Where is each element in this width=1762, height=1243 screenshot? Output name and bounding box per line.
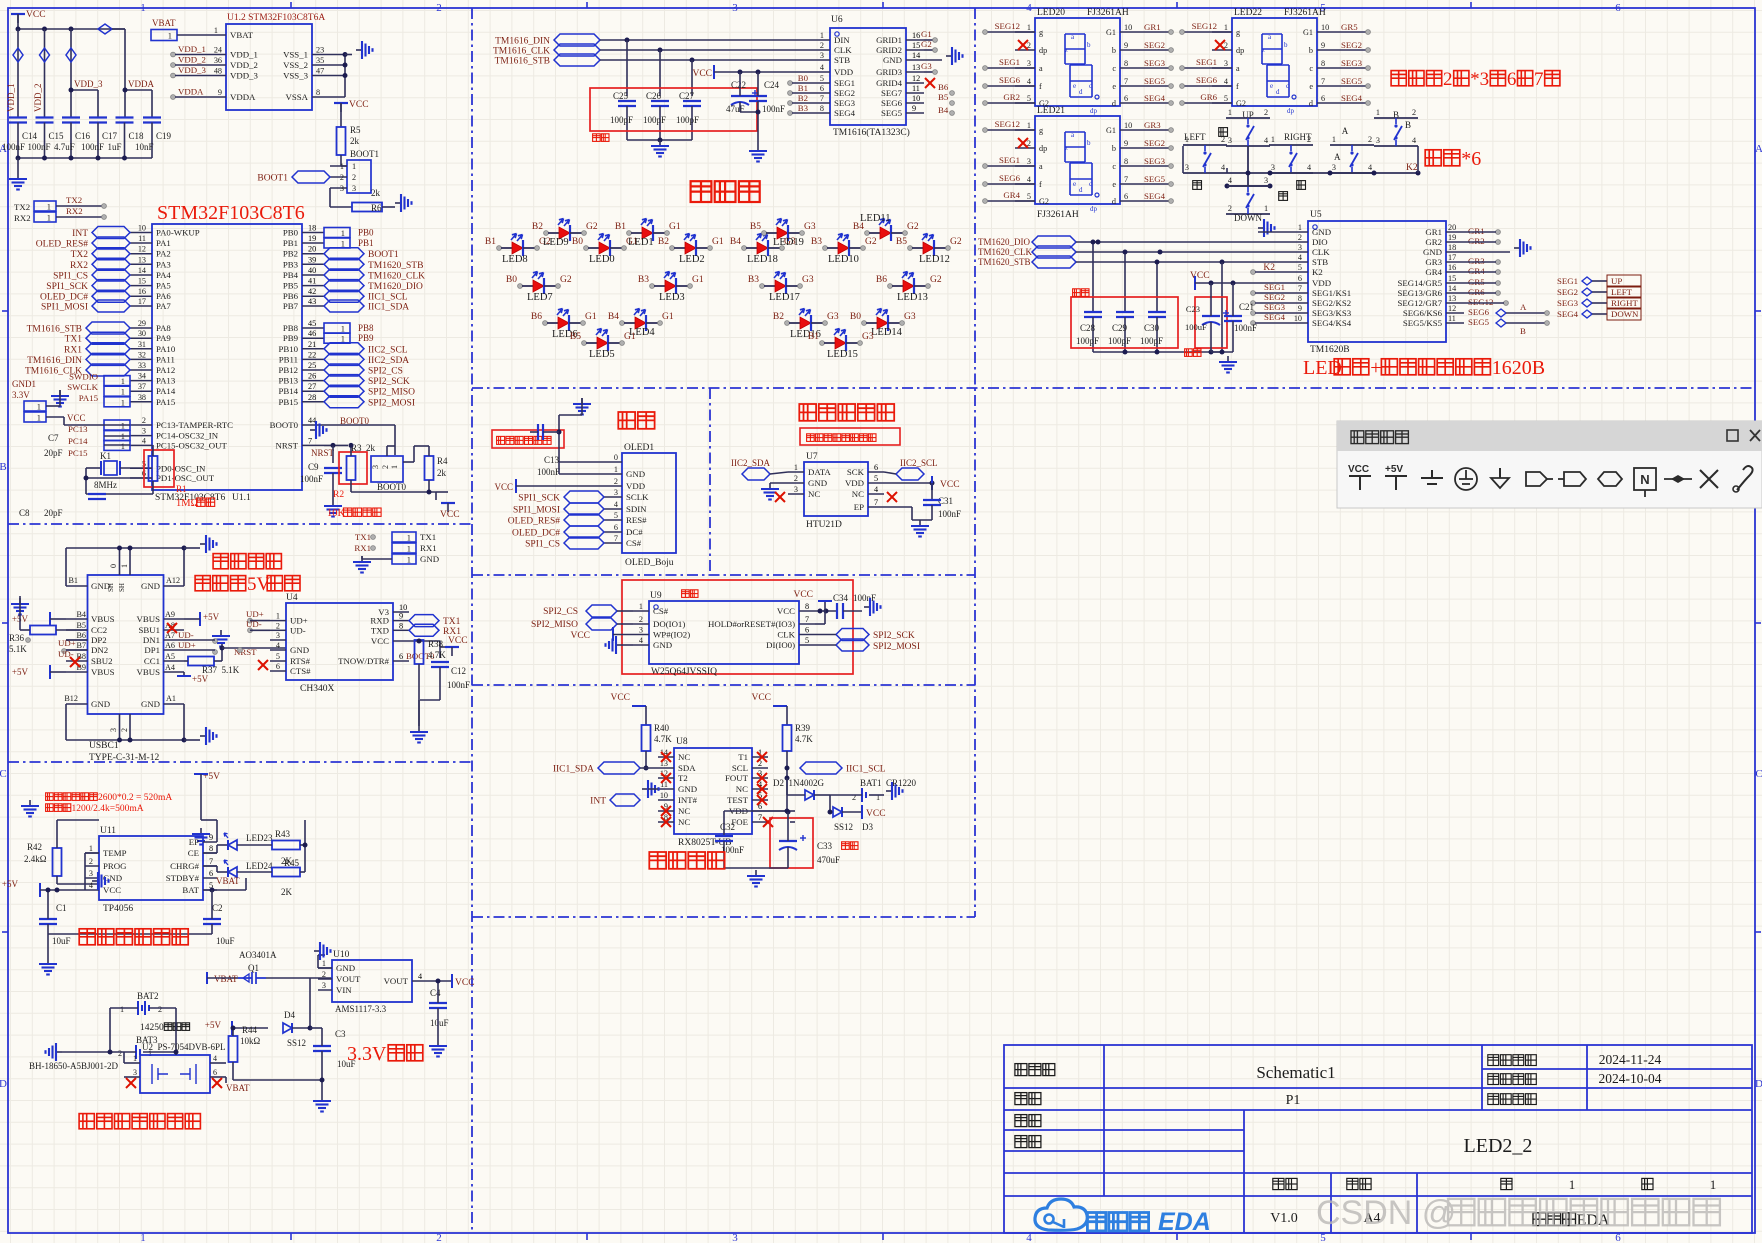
svg-text:LED23: LED23 — [246, 833, 273, 843]
no-connect X — [212, 1078, 222, 1088]
LED LED10 — [823, 246, 828, 251]
svg-text:VDD: VDD — [626, 481, 645, 491]
annotation battery charge title — [79, 929, 95, 945]
LED LED5 — [582, 341, 587, 346]
LED LED12 — [908, 246, 913, 251]
svg-text:SEG2: SEG2 — [1341, 40, 1362, 50]
capacitor C33 470uF — [779, 840, 797, 842]
svg-text:BOOT0: BOOT0 — [377, 482, 406, 492]
svg-text:VDDA: VDDA — [128, 79, 154, 89]
tool icon netlabel N — [1634, 468, 1656, 490]
svg-text:SCK: SCK — [847, 467, 865, 477]
pin 17 PA7 — [130, 305, 152, 307]
svg-text:PA9: PA9 — [156, 333, 171, 343]
svg-text:SS12: SS12 — [287, 1038, 306, 1048]
pin 5 K2 — [1290, 271, 1308, 273]
svg-text:c: c — [1309, 64, 1313, 73]
pin 2 VDD — [604, 485, 622, 487]
label shang — [1219, 128, 1228, 137]
wire — [184, 639, 215, 641]
pin 18 GND — [1446, 251, 1464, 253]
ground — [51, 390, 69, 407]
svg-text:VDD_2: VDD_2 — [178, 55, 206, 65]
svg-text:7: 7 — [1124, 175, 1128, 184]
svg-text:9: 9 — [1124, 41, 1128, 50]
svg-text:R2: R2 — [333, 490, 344, 500]
svg-text:IIC2_SCL: IIC2_SCL — [900, 458, 938, 468]
pin 27 PB14 — [302, 390, 324, 392]
svg-text:4: 4 — [1264, 136, 1268, 145]
svg-text:SEG3: SEG3 — [834, 98, 856, 108]
svg-text:LED3: LED3 — [659, 292, 685, 303]
svg-text:10uF: 10uF — [216, 936, 235, 946]
svg-text:8: 8 — [209, 844, 213, 853]
svg-text:3: 3 — [1271, 163, 1275, 172]
svg-text:c: c — [1112, 64, 1116, 73]
svg-text:U1.2 STM32F103C8T6A: U1.2 STM32F103C8T6A — [227, 13, 325, 23]
svg-text:8: 8 — [805, 602, 809, 611]
svg-text:1: 1 — [1185, 135, 1189, 144]
svg-text:GR6: GR6 — [1468, 287, 1485, 297]
svg-text:FJ3261AH: FJ3261AH — [1087, 8, 1129, 18]
svg-text:SEG6: SEG6 — [881, 98, 903, 108]
svg-text:5: 5 — [1298, 263, 1302, 272]
pin 3 GND — [85, 877, 99, 879]
pin 3 a — [1015, 165, 1035, 167]
svg-text:28: 28 — [308, 393, 316, 402]
svg-text:PA0-WKUP: PA0-WKUP — [156, 228, 200, 238]
pin 29 PA8 — [130, 327, 152, 329]
pin A4 VBUS — [164, 671, 185, 673]
svg-text:PB0: PB0 — [358, 228, 374, 238]
svg-text:26: 26 — [308, 372, 316, 381]
svg-text:GRID2: GRID2 — [876, 45, 902, 55]
net flag IIC1_SCL — [324, 290, 364, 302]
svg-text:NC: NC — [808, 489, 820, 499]
svg-text:9: 9 — [1298, 304, 1302, 313]
svg-text:1: 1 — [390, 465, 399, 469]
svg-text:d: d — [1079, 186, 1083, 194]
svg-text:LED5: LED5 — [589, 349, 615, 360]
net flag SPI1_CS — [564, 537, 604, 549]
pin A8 SBU1 — [164, 629, 185, 631]
svg-text:SPI2_MOSI: SPI2_MOSI — [873, 642, 920, 652]
svg-text:IIC1_SDA: IIC1_SDA — [553, 765, 594, 775]
capacitor C25 100pF — [626, 40, 628, 96]
svg-text:GR1: GR1 — [1144, 22, 1161, 32]
pin 1 GND — [318, 967, 332, 969]
pin 10 V3 — [393, 611, 409, 613]
pin 37 PA14 — [130, 390, 152, 392]
svg-text:VCC: VCC — [866, 809, 886, 819]
svg-text:SEG1/KS1: SEG1/KS1 — [1312, 288, 1351, 298]
svg-text:R39: R39 — [795, 723, 811, 733]
port PC15 — [104, 440, 130, 450]
svg-text:G1: G1 — [1106, 28, 1116, 37]
LED LED7 — [518, 284, 523, 289]
svg-text:5: 5 — [805, 636, 809, 645]
button LEFT — [1183, 144, 1227, 146]
svg-text:VBUS: VBUS — [137, 614, 161, 624]
svg-text:2: 2 — [820, 41, 824, 50]
annotation lcd footprint reversed red box — [492, 430, 564, 448]
svg-text:SEG2: SEG2 — [1144, 40, 1165, 50]
resistor R38 4.7K — [415, 640, 424, 664]
svg-text:GR1: GR1 — [1425, 227, 1442, 237]
svg-text:G2: G2 — [930, 275, 942, 285]
svg-text:B6: B6 — [938, 82, 949, 92]
svg-text:BAT1 CR1220: BAT1 CR1220 — [860, 778, 917, 788]
svg-text:4: 4 — [639, 636, 643, 645]
svg-text:20pF: 20pF — [44, 508, 63, 518]
pin 3 WP#(IO2) — [633, 634, 649, 636]
resistor R39 4.7K — [783, 725, 792, 751]
svg-text:20: 20 — [308, 245, 316, 254]
svg-text:TP4056: TP4056 — [103, 904, 133, 914]
svg-text:4: 4 — [1368, 163, 1372, 172]
annotation buttons title — [1425, 150, 1441, 166]
pin B4 VBUS — [66, 618, 88, 620]
svg-text:4: 4 — [1027, 175, 1031, 184]
svg-text:LED11: LED11 — [860, 213, 891, 224]
svg-text:CTS#: CTS# — [290, 666, 311, 676]
svg-text:1: 1 — [37, 402, 41, 412]
pin 19 PB1 — [302, 242, 324, 244]
svg-text:2: 2 — [276, 621, 280, 630]
title label version — [1273, 1178, 1284, 1189]
svg-text:LED: LED — [1303, 357, 1342, 379]
svg-text:B2: B2 — [798, 93, 808, 103]
svg-text:C12: C12 — [451, 666, 466, 676]
svg-text:DP1: DP1 — [144, 645, 160, 655]
svg-text:SDA: SDA — [678, 763, 696, 773]
pin 20 GR1 — [1446, 231, 1464, 233]
svg-text:SEG3: SEG3 — [1341, 58, 1363, 68]
ground — [39, 958, 57, 975]
svg-text:SEG12: SEG12 — [1468, 297, 1493, 307]
annotation serial title line1 — [213, 554, 228, 569]
pin 46 PB9 — [302, 337, 324, 339]
svg-text:PD0-OSC_IN: PD0-OSC_IN — [156, 463, 206, 473]
port PC13 — [104, 420, 130, 430]
svg-text:B5: B5 — [570, 332, 581, 342]
svg-text:VIN: VIN — [336, 985, 352, 995]
svg-text:9: 9 — [209, 833, 213, 842]
svg-text:G2: G2 — [586, 222, 598, 232]
capacitor C17 100nF — [89, 116, 107, 118]
svg-text:7: 7 — [1534, 69, 1544, 90]
svg-text:PB1: PB1 — [358, 238, 374, 248]
wire — [17, 14, 19, 29]
svg-text:STB: STB — [1312, 257, 1328, 267]
svg-text:18: 18 — [1448, 243, 1456, 252]
svg-text:A: A — [1755, 143, 1762, 155]
svg-text:RX2: RX2 — [66, 206, 83, 216]
svg-text:2: 2 — [89, 857, 93, 866]
svg-text:TX1: TX1 — [355, 532, 371, 542]
pin 6 CTS# — [270, 670, 286, 672]
pin A6 DP1 — [164, 649, 185, 651]
svg-text:R42: R42 — [27, 842, 42, 852]
svg-text:PB11: PB11 — [279, 354, 298, 364]
svg-text:UD+: UD+ — [290, 616, 308, 626]
svg-text:PB9: PB9 — [358, 333, 374, 343]
pin 9 SEG5 — [906, 112, 924, 114]
svg-text:7: 7 — [209, 857, 213, 866]
svg-text:A4: A4 — [165, 663, 175, 672]
LED LED23 — [228, 840, 237, 850]
wire pin0 — [559, 461, 604, 463]
svg-text:6: 6 — [1298, 274, 1302, 283]
panel button maximize — [1727, 430, 1738, 441]
title label material code — [1488, 1094, 1499, 1105]
annotation not soldered — [1073, 289, 1081, 297]
pin 7 e — [1120, 183, 1140, 185]
net flag RX1 — [86, 343, 130, 355]
IC U1.1 STM32F103C8T6 body — [152, 224, 302, 490]
digit glyph LED20 upper — [1065, 34, 1085, 64]
svg-text:d: d — [1309, 99, 1313, 108]
svg-text:5.1K: 5.1K — [9, 644, 27, 654]
svg-text:K2: K2 — [1312, 267, 1323, 277]
pin 28 PB15 — [302, 401, 324, 403]
svg-text:LED24: LED24 — [246, 861, 273, 871]
net flag OLED_RES# — [564, 514, 604, 526]
svg-text:b: b — [1112, 46, 1116, 55]
svg-text:SWDIO: SWDIO — [69, 372, 98, 382]
svg-text:SEG2: SEG2 — [1264, 292, 1285, 302]
svg-text:LED12: LED12 — [919, 254, 950, 265]
svg-text:LED0: LED0 — [589, 254, 615, 265]
svg-text:2: 2 — [118, 1049, 122, 1058]
no-connect X — [887, 492, 897, 502]
svg-text:23: 23 — [316, 46, 324, 55]
svg-text:RTS#: RTS# — [290, 656, 311, 666]
svg-text:100nF: 100nF — [300, 474, 323, 484]
svg-text:6: 6 — [1507, 69, 1517, 90]
svg-text:1: 1 — [140, 2, 146, 14]
pin 3 PC14-OSC32_IN — [130, 435, 152, 437]
svg-text:b: b — [1309, 46, 1313, 55]
svg-text:6: 6 — [1615, 2, 1621, 14]
svg-text:16: 16 — [138, 287, 146, 296]
svg-text:D: D — [0, 1078, 7, 1090]
resistor R40 4.7K — [642, 725, 651, 751]
svg-text:VCC: VCC — [455, 978, 475, 988]
svg-text:d: d — [1276, 88, 1280, 96]
svg-text:B3: B3 — [798, 103, 809, 113]
svg-text:5: 5 — [1027, 192, 1031, 201]
svg-text:SEG6/KS6: SEG6/KS6 — [1403, 308, 1443, 318]
capacitor C18 1uF — [116, 116, 134, 118]
connector USBC1 TYPE-C-31-M-12 — [88, 575, 164, 714]
svg-text:DN2: DN2 — [91, 645, 108, 655]
ground — [573, 398, 591, 415]
pin 11 GND — [658, 788, 674, 790]
svg-text:10: 10 — [660, 791, 668, 800]
svg-text:C26: C26 — [646, 91, 662, 101]
svg-text:NC: NC — [678, 817, 690, 827]
svg-text:PB1: PB1 — [283, 238, 298, 248]
wire gnd u10 — [318, 967, 332, 969]
svg-text:LEFT: LEFT — [1611, 287, 1633, 297]
pin A5 CC1 — [164, 660, 185, 662]
svg-text:4: 4 — [142, 436, 146, 445]
pin 8 SEG4 — [812, 112, 830, 114]
svg-text:a: a — [1039, 162, 1043, 171]
svg-text:c: c — [1112, 162, 1116, 171]
svg-text:1: 1 — [322, 959, 326, 968]
svg-text:C25: C25 — [613, 91, 629, 101]
svg-text:3: 3 — [1264, 176, 1268, 185]
ground — [651, 140, 669, 157]
svg-text:G1: G1 — [921, 29, 932, 39]
digit glyph LED22 lower — [1267, 65, 1289, 97]
ground — [17, 158, 19, 173]
svg-text:SEG3/KS3: SEG3/KS3 — [1312, 308, 1352, 318]
pin 16 PA6 — [130, 295, 152, 297]
svg-text:4: 4 — [1221, 163, 1225, 172]
label you — [1297, 181, 1306, 190]
svg-text:G3: G3 — [827, 312, 839, 322]
svg-text:2k: 2k — [437, 468, 447, 478]
net flag IIC1_SCL — [800, 762, 842, 774]
pin 4 GND — [270, 649, 286, 651]
port PC14 — [104, 431, 130, 441]
svg-text:VDD_1: VDD_1 — [6, 84, 16, 113]
net flag SPI2_SCK — [324, 375, 364, 387]
wire dio — [1076, 241, 1290, 243]
svg-text:CLK: CLK — [1312, 247, 1330, 257]
svg-text:GND: GND — [336, 963, 355, 973]
svg-text:IIC1_SCL: IIC1_SCL — [846, 765, 886, 775]
svg-text:1: 1 — [120, 1005, 124, 1014]
pin 1 UD+ — [270, 620, 286, 622]
svg-text:11: 11 — [138, 234, 146, 243]
svg-text:4: 4 — [89, 881, 93, 890]
tool icon no-connect X — [1700, 470, 1718, 488]
pin 12 T2 — [658, 777, 674, 779]
pin 10 INT# — [658, 799, 674, 801]
ground — [642, 780, 659, 798]
svg-text:SEG12/GR7: SEG12/GR7 — [1398, 298, 1443, 308]
svg-text:SPI2_MOSI: SPI2_MOSI — [368, 398, 415, 408]
net flag BOOT1 — [292, 171, 330, 183]
svg-text:K1: K1 — [100, 451, 111, 461]
wire — [640, 767, 658, 769]
section divider horizontal mid y=685 — [472, 684, 975, 686]
digit glyph LED20 lower — [1070, 65, 1092, 97]
svg-text:HOLD#orRESET#(IO3): HOLD#orRESET#(IO3) — [708, 619, 795, 629]
svg-text:48: 48 — [214, 67, 222, 76]
svg-text:2: 2 — [1443, 69, 1453, 90]
pin 6 CLK — [799, 634, 815, 636]
svg-text:1: 1 — [89, 844, 93, 853]
net flag RX1 — [409, 624, 439, 636]
svg-text:1: 1 — [1224, 23, 1228, 32]
svg-text:3: 3 — [1027, 157, 1031, 166]
net flag TM1620_CLK — [324, 269, 364, 281]
svg-text:DI(IO0): DI(IO0) — [766, 640, 795, 650]
wire — [340, 155, 342, 166]
svg-text:LED2_2: LED2_2 — [1464, 1135, 1533, 1157]
svg-text:TM1620_STB: TM1620_STB — [978, 257, 1031, 267]
wire vin rail — [309, 978, 311, 992]
svg-text:U2 PS-7054DVB-6PL: U2 PS-7054DVB-6PL — [142, 1042, 226, 1052]
svg-text:VBUS: VBUS — [137, 667, 161, 677]
svg-text:BH-18650-A5BJ001-2D: BH-18650-A5BJ001-2D — [29, 1061, 118, 1071]
svg-text:NRST: NRST — [276, 440, 299, 450]
ground — [761, 483, 779, 500]
svg-text:5: 5 — [276, 652, 280, 661]
svg-text:CH340X: CH340X — [300, 684, 334, 694]
svg-text:VBUS: VBUS — [91, 614, 115, 624]
ground — [353, 556, 371, 573]
tool icon hexagon — [1598, 472, 1622, 486]
svg-text:TYPE-C-31-M-12: TYPE-C-31-M-12 — [89, 753, 159, 763]
svg-text:G2: G2 — [1039, 197, 1049, 206]
svg-text:SEG7: SEG7 — [881, 88, 903, 98]
svg-text:1: 1 — [1027, 23, 1031, 32]
svg-text:c: c — [1089, 180, 1092, 188]
pin 7 FOE — [752, 821, 768, 823]
pin 10 PA0-WKUP — [130, 232, 152, 234]
svg-text:+5V: +5V — [12, 667, 29, 677]
svg-text:G2: G2 — [1236, 99, 1246, 108]
svg-text:SEG2: SEG2 — [1557, 287, 1578, 297]
svg-text:10uF: 10uF — [430, 1018, 449, 1028]
pin 6 d — [1317, 102, 1337, 104]
svg-text:PB8: PB8 — [283, 323, 299, 333]
pin 5 RES# — [604, 519, 622, 521]
svg-text:4: 4 — [1307, 163, 1311, 172]
pin 4 f — [1015, 85, 1035, 87]
svg-text:1: 1 — [341, 228, 345, 238]
svg-text:FOUT: FOUT — [725, 773, 749, 783]
svg-text:G2: G2 — [907, 222, 919, 232]
wire button bus — [1247, 146, 1249, 186]
svg-text:8: 8 — [1124, 157, 1128, 166]
pin 4 f — [1212, 85, 1232, 87]
svg-text:RX1: RX1 — [354, 543, 371, 553]
pin 3 VIN — [318, 989, 332, 991]
svg-text:TM1620_CLK: TM1620_CLK — [978, 247, 1033, 257]
pin 1 g — [1015, 129, 1035, 131]
wire — [85, 852, 99, 854]
pin 8 VCC — [799, 610, 815, 612]
pin A1 GND — [164, 703, 185, 705]
svg-text:1: 1 — [37, 413, 41, 423]
svg-text:100pF: 100pF — [610, 115, 633, 125]
tool icon node — [1664, 478, 1692, 480]
svg-text:12: 12 — [138, 245, 146, 254]
net flag VDD_2 — [40, 48, 50, 62]
panel button close — [1750, 430, 1760, 441]
svg-text:B: B — [0, 461, 7, 473]
svg-text:0: 0 — [614, 453, 618, 462]
svg-text:AO3401A: AO3401A — [239, 950, 277, 960]
svg-text:7: 7 — [805, 615, 809, 624]
svg-text:G3: G3 — [862, 332, 874, 342]
svg-text:Schematic1: Schematic1 — [1256, 1063, 1335, 1082]
svg-text:SEG1: SEG1 — [1264, 282, 1285, 292]
svg-text:A12: A12 — [166, 576, 180, 585]
svg-text:VBAT: VBAT — [216, 876, 240, 886]
svg-text:PA15: PA15 — [79, 393, 99, 403]
svg-text:10kΩ: 10kΩ — [240, 1036, 261, 1046]
svg-text:3: 3 — [322, 981, 326, 990]
svg-text:SPI1_MOSI: SPI1_MOSI — [513, 506, 560, 516]
